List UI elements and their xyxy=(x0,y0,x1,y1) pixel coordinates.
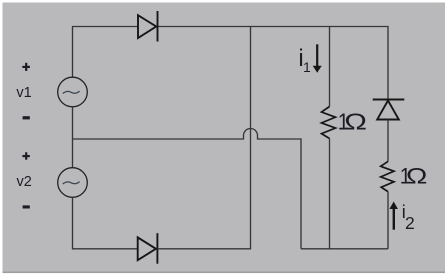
wire: R2 bottom lead down to bottom-right rail corner xyxy=(387,192,389,249)
wire: bottom-right rail from x=301 to x=388 xyxy=(301,248,388,250)
wire: top rail from D1 to top-right corner, down to D2 xyxy=(158,27,389,100)
wire: D2 bottom to R2 top xyxy=(387,120,389,162)
svg-text:v1: v1 xyxy=(16,85,31,101)
v2 sine symbol xyxy=(63,182,80,184)
wire: R1 bottom lead xyxy=(329,139,331,249)
diode D2 (right branch, pointing up) xyxy=(373,100,405,120)
diode D3 (bottom, pointing right) xyxy=(138,233,158,264)
label + (v1) xyxy=(22,63,30,71)
svg-text:Ω: Ω xyxy=(344,109,367,134)
svg-text:v2: v2 xyxy=(17,174,32,190)
v1 sine symbol xyxy=(63,91,80,93)
wire: v2 bottom down to bottom-left rail, to D3 xyxy=(73,198,138,249)
wire: bottom-left rail from D3 to vertical riser x=250.5 xyxy=(157,27,250,249)
label + (v2) xyxy=(22,152,29,159)
svg-text:2: 2 xyxy=(405,213,415,233)
source v1 (AC) xyxy=(58,77,88,107)
wire: v1 bottom to middle junction to v2 top xyxy=(72,107,74,167)
svg-text:1: 1 xyxy=(303,59,311,75)
wire: middle rail from sources junction with hop over riser, down at x=301 xyxy=(73,129,302,249)
resistor R2 zigzag xyxy=(381,161,394,191)
panel bottom darker edge xyxy=(3,271,445,273)
diode D1 (top, pointing right) xyxy=(138,11,158,42)
source v2 (AC) xyxy=(58,168,88,198)
label - (v1) xyxy=(23,116,30,119)
resistor R1 zigzag xyxy=(322,107,336,139)
arrow i2 (up) xyxy=(389,202,398,230)
svg-text:Ω: Ω xyxy=(406,165,428,189)
label - (v2) xyxy=(23,205,30,208)
wire: top rail from v1 top corner to D1 xyxy=(73,27,139,78)
arrow i1 (down) xyxy=(313,44,322,72)
wire: R1 branch top lead xyxy=(329,27,331,107)
